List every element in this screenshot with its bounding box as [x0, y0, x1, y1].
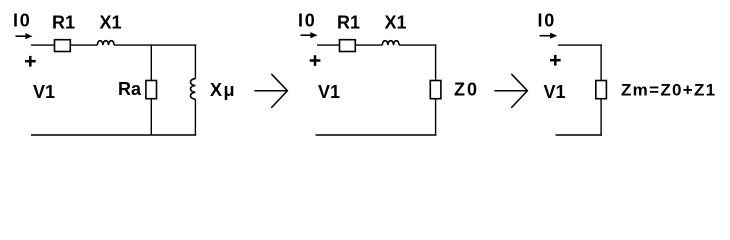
current arrow I0 (circuit 2): [301, 32, 318, 38]
plus sign (circuit 1): [25, 56, 36, 67]
current arrow I0 (circuit 3): [540, 33, 558, 39]
wire Ra branch (circuit 1): [150, 44, 152, 135]
label Z0 (circuit 2): [454, 79, 479, 99]
label R1 (circuit 1): [52, 13, 75, 33]
label Zm=Z0+Z1 (circuit 3): [621, 81, 716, 100]
inductor X1 (circuit 1): [97, 41, 114, 45]
wire bottom (circuit 3): [556, 134, 602, 136]
plus sign (circuit 2): [310, 55, 321, 66]
svg-text:X1: X1: [100, 13, 122, 33]
impedance Z0 (circuit 2): [430, 81, 441, 99]
svg-text:Zm=Z0+Z1: Zm=Z0+Z1: [621, 81, 716, 100]
impedance Zm (circuit 3): [596, 81, 607, 99]
svg-text:I0: I0: [13, 11, 32, 31]
label Xu (circuit 1): [210, 80, 236, 100]
label V1 (circuit 2): [318, 82, 340, 102]
label I0 (circuit 3): [538, 11, 557, 31]
wire top (circuit 3): [558, 44, 602, 46]
svg-text:I0: I0: [538, 11, 557, 31]
svg-text:V1: V1: [318, 82, 340, 102]
svg-text:Z0: Z0: [454, 79, 479, 99]
resistor R1 (circuit 2): [340, 40, 356, 52]
svg-text:V1: V1: [33, 82, 55, 102]
resistor R1 (circuit 1): [55, 40, 71, 52]
wire bottom (circuit 2): [316, 134, 437, 136]
label V1 (circuit 3): [544, 82, 566, 102]
wire right branch (circuit 2): [435, 44, 437, 135]
inductor X1 (circuit 2): [382, 41, 399, 45]
svg-text:V1: V1: [544, 82, 566, 102]
inductor Xu (circuit 1): [190, 79, 195, 99]
label X1 (circuit 2): [385, 13, 407, 33]
wire top (circuit 1): [31, 44, 196, 46]
svg-text:X1: X1: [385, 13, 407, 33]
equivalence arrow 2: [495, 74, 527, 107]
label Ra (circuit 1): [118, 79, 142, 99]
svg-text:R1: R1: [337, 13, 360, 33]
svg-text:R1: R1: [52, 13, 75, 33]
wire bottom (circuit 1): [31, 134, 196, 136]
svg-text:Xμ: Xμ: [210, 80, 236, 100]
wire top (circuit 2): [317, 44, 436, 46]
svg-text:I0: I0: [298, 11, 317, 31]
equivalence arrow 1: [255, 74, 287, 107]
label X1 (circuit 1): [100, 13, 122, 33]
label I0 (circuit 2): [298, 11, 317, 31]
label R1 (circuit 2): [337, 13, 360, 33]
plus sign (circuit 3): [550, 55, 561, 66]
wire right branch (circuit 3): [600, 44, 602, 135]
svg-text:Ra: Ra: [118, 79, 142, 99]
wire right branch (circuit 1): [194, 44, 196, 135]
resistor Ra (circuit 1): [146, 81, 157, 99]
label I0 (circuit 1): [13, 11, 32, 31]
label V1 (circuit 1): [33, 82, 55, 102]
current arrow I0 (circuit 1): [16, 33, 33, 39]
